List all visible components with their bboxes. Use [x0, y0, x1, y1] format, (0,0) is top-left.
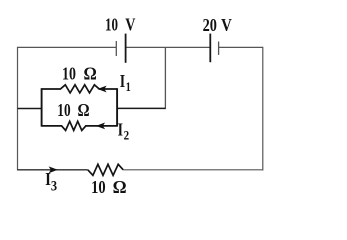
wire: top side right of 20V battery [219, 46, 263, 48]
wire: middle horizontal from junction down-wire to right bar of parallel block [117, 107, 165, 109]
wire: right side of outer loop [262, 47, 264, 171]
battery V1 (10 V): long positive plate [125, 34, 127, 63]
svg-text:20: 20 [203, 15, 217, 35]
wire: right bar of parallel block [116, 88, 118, 126]
svg-text:2: 2 [124, 127, 130, 142]
resistor R1 (10 Ω, top branch) with lead wires [42, 85, 118, 93]
label: 10 V (battery V1 value) [105, 15, 136, 35]
wire: bottom side right of resistor R3 [123, 169, 263, 171]
svg-text:10: 10 [91, 177, 106, 197]
wire: left side of outer loop [17, 47, 19, 171]
resistor R3 (10 Ω, bottom branch) [88, 164, 123, 175]
svg-text:V: V [125, 15, 135, 35]
wire: bottom side left of resistor R3 [18, 169, 88, 171]
battery V2 (20 V): long positive plate [209, 34, 211, 63]
wire: top side between batteries [126, 46, 211, 48]
label: current I1 [120, 71, 131, 94]
svg-text:10: 10 [105, 15, 118, 35]
arrow: current I3 (points right) [49, 166, 58, 173]
arrow: current I2 (points left) [96, 123, 105, 130]
label: 10 Ω (resistor R2 value) [57, 100, 89, 120]
wire: left stub from outer-left wire into parallel block [18, 108, 42, 110]
battery V1 (10 V): short negative plate [115, 41, 117, 56]
label: 10 Ω (resistor R1 value) [62, 64, 97, 84]
arrow: current I1 (points left) [97, 86, 106, 93]
label: 10 Ω (resistor R3 value) [91, 177, 127, 197]
svg-text:I: I [120, 71, 125, 91]
svg-text:Ω: Ω [113, 177, 127, 197]
label: 20 V (battery V2 value) [203, 15, 232, 35]
battery V2 (20 V): short negative plate [218, 42, 220, 55]
resistor R2 (10 Ω, middle branch) with lead wires [42, 121, 118, 130]
node: top-wire junction to inner branch [164, 47, 166, 109]
wire: top side of outer loop (left segment to 10V battery) [18, 46, 117, 48]
label: current I2 [118, 119, 130, 142]
svg-text:10: 10 [62, 64, 76, 84]
wire: left bar of parallel block [41, 88, 43, 126]
svg-text:I: I [118, 119, 123, 139]
svg-text:1: 1 [126, 79, 131, 94]
label: current I3 [45, 169, 57, 195]
svg-text:Ω: Ω [84, 64, 97, 84]
svg-text:3: 3 [51, 179, 57, 195]
svg-text:V: V [221, 15, 232, 35]
svg-text:10: 10 [57, 100, 70, 120]
svg-text:Ω: Ω [78, 100, 90, 120]
